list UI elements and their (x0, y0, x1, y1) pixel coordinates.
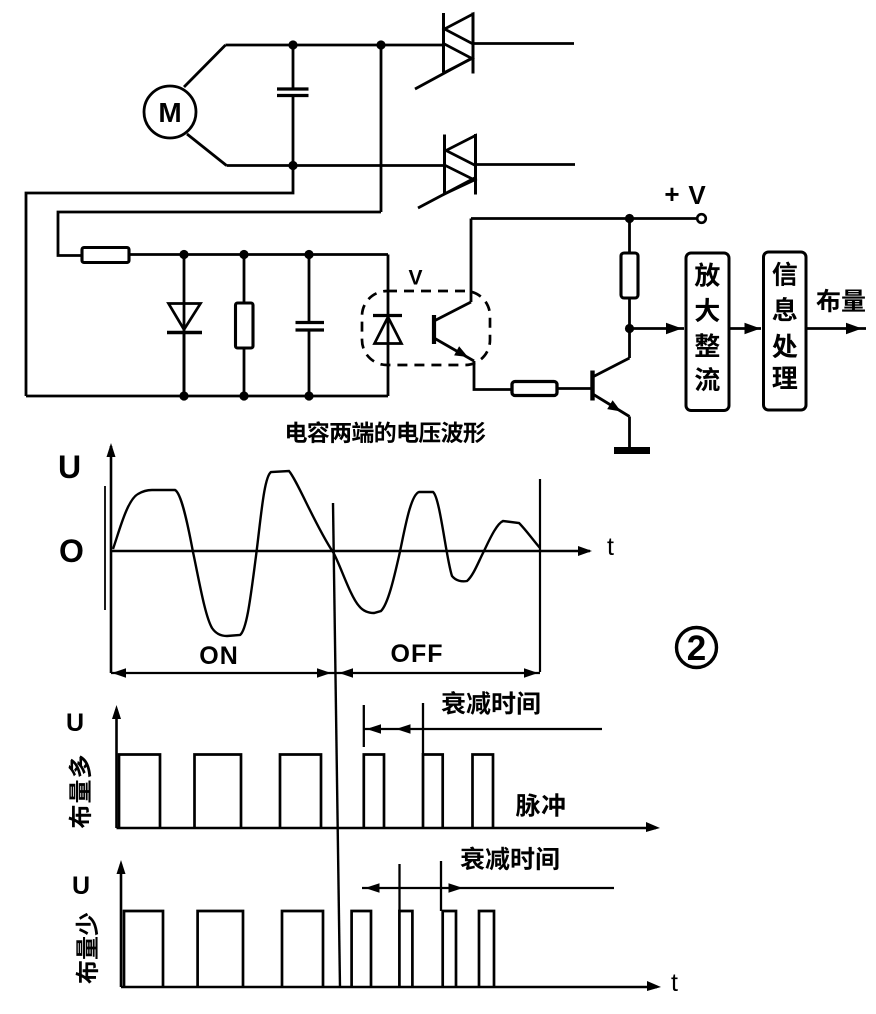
node capacitor C1 bottom junction (288, 161, 297, 170)
optocoupler V dashed outline (362, 291, 490, 365)
wire A stepped to bottom rail (26, 165, 293, 396)
resistor R2 (236, 254, 254, 396)
chart1 right boundary (539, 479, 541, 672)
node resistor R2 bottom (239, 391, 248, 400)
wire phototransistor emitter to R4 (474, 361, 512, 390)
wire top rail (226, 44, 444, 47)
caption capacitor voltage waveform (287, 421, 485, 443)
wire VT1 right lead (473, 42, 574, 45)
wire emitter to ground (628, 417, 631, 449)
capacitor C2 (296, 254, 325, 396)
ground (614, 447, 650, 454)
label quantity-few rotated (76, 913, 99, 984)
svg-text:+: + (664, 179, 679, 209)
chart2 y-axis (112, 705, 121, 828)
svg-text:U: U (58, 449, 81, 485)
chart3 decay arrow left (365, 883, 380, 892)
terminal +V circle (697, 214, 706, 223)
label +V (664, 179, 706, 210)
wire motor top lead (184, 45, 226, 87)
chart2 decay tick 2 (422, 703, 424, 754)
dim arrow left end (112, 668, 126, 677)
svg-text:2: 2 (687, 629, 706, 668)
chart3 decay dimension line (362, 887, 614, 889)
wire VT2 right lead (476, 163, 576, 166)
arrow into info block (745, 323, 761, 335)
chart2 decay arrow 2 (396, 724, 411, 733)
diode VD1 (167, 254, 202, 396)
label output quantity (816, 289, 865, 313)
phototransistor inside optocoupler (434, 302, 474, 361)
triac VT2 (418, 134, 477, 208)
label quantity-many rotated (69, 756, 92, 829)
dim arrow after divider (339, 668, 353, 677)
chart2 t-axis (116, 822, 660, 832)
resistor R4 base (512, 382, 557, 396)
wire LED anode feed (387, 254, 390, 315)
label decay time chart3 (461, 847, 559, 871)
chart3 y-axis (116, 860, 125, 987)
wire mid top rail (129, 253, 388, 256)
svg-text:U: U (72, 872, 90, 900)
wire amp to info block (729, 327, 761, 330)
capacitor C1 (277, 45, 309, 166)
chart2 decay tick 1 (363, 705, 365, 747)
triac VT1 (415, 12, 474, 89)
node capacitor C1 top junction (288, 40, 297, 49)
chart3 decay tick 1 (398, 864, 400, 911)
node diode VD1 bottom (179, 391, 188, 400)
svg-text:O: O (59, 533, 84, 569)
resistor R1 (82, 247, 129, 262)
svg-text:M: M (158, 97, 181, 128)
transistor Q1 (593, 358, 630, 417)
arrow into amp block (666, 323, 682, 335)
LED inside optocoupler (373, 315, 402, 396)
chart2 decay arrow 1 (366, 724, 381, 733)
wire base (557, 387, 593, 390)
chart1 y-axis double line (104, 486, 106, 610)
node collector junction (625, 324, 634, 333)
svg-text:U: U (66, 709, 84, 737)
node R3 top junction (625, 214, 634, 223)
svg-text:V: V (688, 180, 706, 210)
svg-text:V: V (408, 266, 422, 289)
svg-text:ON: ON (199, 642, 239, 670)
divider line ON/OFF (333, 503, 340, 988)
label decay time chart2 (442, 691, 540, 715)
wire phototransistor collector up (470, 219, 473, 303)
motor M (144, 86, 196, 138)
resistor R3 (621, 219, 638, 329)
figure number 2 circled (676, 628, 716, 669)
wire collector junction down (628, 329, 631, 359)
dimension line ON OFF (111, 672, 540, 674)
wire +V rail (471, 217, 698, 220)
label pulse (516, 793, 565, 817)
pulse train many (119, 754, 493, 828)
svg-text:t: t (607, 533, 614, 561)
pulse train few (124, 911, 494, 987)
chart3 decay tick 2 (440, 861, 442, 911)
dim arrow before divider (317, 668, 331, 677)
wire B stepped to resistor R1 (58, 212, 381, 256)
node capacitor C2 bottom (304, 391, 313, 400)
wire bottom rail (227, 164, 445, 167)
label info-processing (772, 262, 797, 389)
node resistor R2 top (239, 250, 248, 259)
wire collector to amp block (630, 327, 685, 330)
dim arrow right end (524, 668, 538, 677)
node capacitor C2 top (304, 250, 313, 259)
node diode VD1 top (179, 250, 188, 259)
chart2 decay dimension line (364, 728, 602, 730)
wire motor bottom lead (187, 134, 227, 166)
chart1 t-axis (111, 546, 592, 556)
svg-text:t: t (671, 969, 678, 997)
node top rail to wire-B junction (376, 40, 385, 49)
chart3 decay arrow right (448, 883, 463, 892)
block amplifier-rectifier (686, 253, 729, 411)
svg-text:OFF: OFF (390, 640, 443, 668)
chart1 y-axis (106, 443, 115, 673)
wire mid bottom rail (26, 395, 388, 398)
wire output (806, 327, 866, 330)
chart3 t-axis (121, 981, 661, 991)
block info-processing (764, 252, 807, 410)
waveform damped sine (113, 471, 540, 636)
arrow output (846, 323, 862, 335)
wire top-rail to RC network (vertical) (380, 45, 383, 212)
label amplifier-rectifier (695, 262, 720, 391)
